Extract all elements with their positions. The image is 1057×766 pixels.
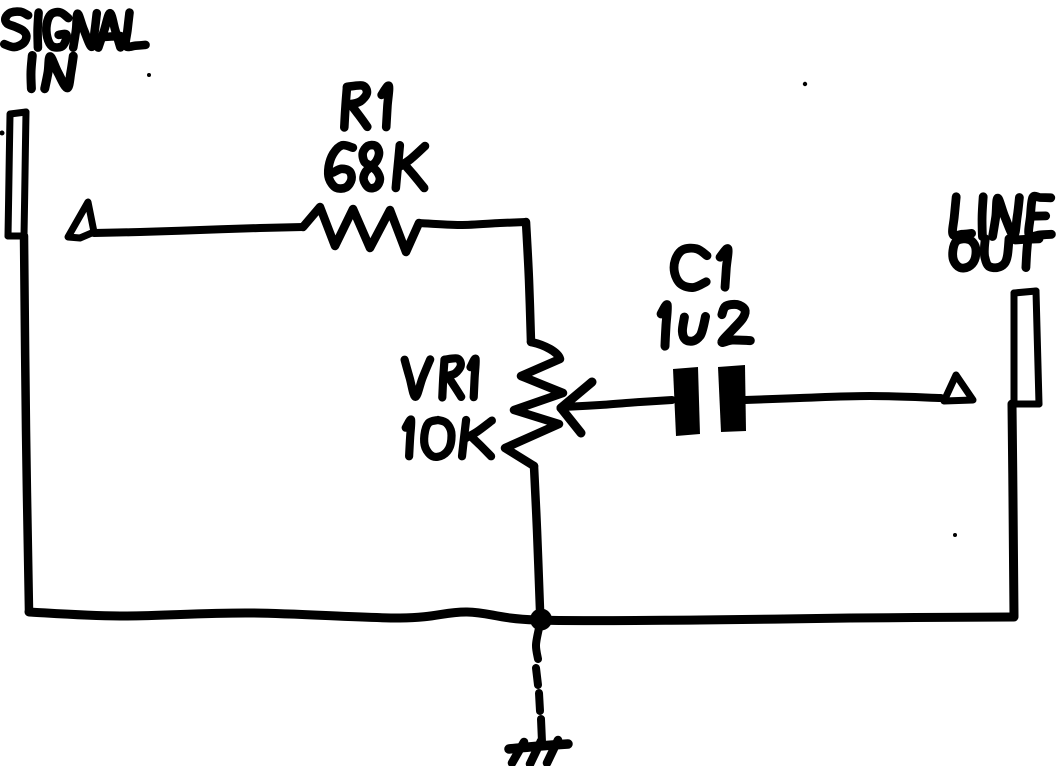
speck dots [0,12,957,538]
label R1 [344,85,389,127]
connector J2 LINE OUT jack [1012,291,1039,404]
wire wiper to C1 [563,400,672,407]
ground [509,740,568,764]
wire bottom ground bus [29,612,1014,621]
value 1u2 [661,304,750,346]
wire input to R1 [94,227,303,233]
wiper arrow VR1 [561,382,592,433]
wire R1 to VR1 [419,222,531,342]
wire dashed to ground [536,628,542,742]
label LINE [952,196,1051,236]
potentiometer VR1 [505,342,563,466]
resistor R1 [303,207,419,252]
label C1 [674,248,728,287]
value 68K [328,145,425,189]
capacitor C1 [673,365,746,436]
value 10K [406,419,492,456]
label VR1 [405,358,476,397]
connector J1 SIGNAL IN jack [8,112,26,236]
label IN [31,56,73,89]
label SIGNAL [4,12,145,48]
wire C1 to LINE OUT [745,396,941,400]
node output arrow [944,375,973,401]
label OUT [953,239,1039,269]
wire VR1 to junction [534,466,540,610]
wire left vertical [24,236,29,611]
wire right vertical [1012,404,1014,616]
node input arrow [68,202,94,238]
junction node ground bus [530,609,552,631]
